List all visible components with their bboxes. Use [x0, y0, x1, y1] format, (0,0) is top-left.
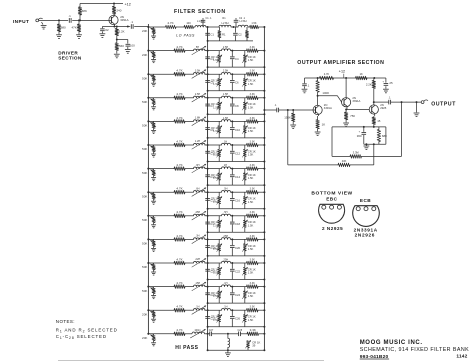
inductor band7 variable	[192, 164, 206, 173]
inductor band2 L series	[222, 49, 231, 51]
svg-text:1.5K: 1.5K	[213, 294, 219, 298]
resistor band7 4.7K	[174, 167, 185, 171]
trimmer band2 a	[217, 51, 222, 68]
svg-text:47K: 47K	[72, 26, 77, 30]
value CR1K b band9	[248, 220, 256, 224]
value 100K	[322, 91, 329, 95]
value CR1K b band4	[248, 102, 256, 106]
svg-text:2.5H: 2.5H	[223, 46, 228, 49]
value C25	[210, 317, 216, 321]
svg-text:1.5K: 1.5K	[248, 318, 254, 322]
capacitor band1 shunt C2	[233, 27, 238, 41]
svg-text:240: 240	[116, 8, 121, 12]
svg-text:2.5H: 2.5H	[195, 93, 200, 96]
value L2 8H	[222, 21, 229, 25]
transistor Q4	[369, 105, 378, 114]
wire band2 mid	[205, 50, 222, 52]
label HI PASS	[175, 345, 198, 351]
value .1 coupling	[131, 20, 134, 24]
svg-text:680: 680	[61, 26, 66, 30]
node band8 mid bus	[207, 191, 209, 193]
capacitor C3 band2	[205, 51, 210, 68]
resistor 1K rail	[356, 76, 368, 80]
inductor band3 variable	[192, 70, 206, 79]
capacitor 25uF rail	[384, 78, 389, 89]
value CR1K b band3	[248, 79, 256, 83]
wire Q3 emitter	[345, 106, 347, 110]
value 20K band14	[142, 336, 147, 340]
value C23	[210, 293, 216, 297]
wire band5 series	[148, 120, 174, 122]
potentiometer R level band11 50K	[147, 262, 156, 272]
value C18	[235, 222, 241, 226]
value 3.3K band6	[250, 140, 255, 143]
value 1.5K a band10	[213, 247, 219, 251]
svg-text:3391A: 3391A	[324, 106, 332, 110]
node filter output tap	[263, 109, 265, 111]
ground (pot band10)	[151, 248, 156, 251]
trimmer band3 b	[242, 74, 247, 91]
svg-text:SCHEMATIC, 914 FIXED FILTER BA: SCHEMATIC, 914 FIXED FILTER BANK	[360, 347, 469, 353]
capacitor C27	[210, 332, 227, 337]
label Q3 type	[352, 96, 360, 103]
svg-text:1.5K: 1.5K	[213, 247, 219, 251]
svg-text:3.3K: 3.3K	[250, 117, 255, 120]
inductor band14 shunt L	[228, 334, 230, 351]
svg-text:360: 360	[357, 134, 362, 138]
value C1 .1	[206, 17, 213, 20]
value 1.5K band1	[251, 22, 256, 25]
value 4.7K band7	[176, 163, 182, 167]
svg-text:25: 25	[389, 81, 393, 85]
value CR1K b band11	[248, 267, 256, 271]
wire band6 out	[258, 144, 264, 146]
wire band9 r-l	[185, 215, 194, 217]
wire band6 mid	[205, 144, 222, 146]
ground (input jack)	[41, 22, 47, 29]
resistor 47K	[77, 20, 80, 34]
svg-text:4.7K: 4.7K	[176, 163, 182, 167]
node band3 mid bus	[207, 73, 209, 75]
value .5H	[224, 211, 228, 214]
value 15	[377, 119, 381, 123]
node band9 input	[147, 215, 149, 217]
value 50K band4	[142, 100, 147, 104]
svg-text:1.5K: 1.5K	[248, 294, 254, 298]
svg-text:3.3K: 3.3K	[250, 140, 255, 143]
value C4	[235, 57, 239, 61]
value C13	[210, 175, 216, 179]
svg-text:1.5K: 1.5K	[213, 176, 219, 180]
wire band10 r-l	[185, 238, 194, 240]
resistor 1K emitter Q2	[316, 120, 319, 132]
capacitor .02 (emitter)	[100, 27, 105, 34]
value 3.3K band8	[250, 188, 255, 191]
wire band6 mid2	[231, 144, 247, 146]
value 4.7K band8	[176, 187, 182, 191]
svg-text:C22: C22	[235, 269, 241, 273]
ground (pot band9)	[151, 225, 156, 228]
resistor band12 4.7K	[174, 285, 185, 289]
resistor band13 3.3K	[247, 308, 259, 312]
svg-text:NOTES:: NOTES:	[56, 319, 75, 324]
wire band3 r-l	[185, 73, 194, 75]
node band10 input	[147, 238, 149, 240]
svg-text:.25H: .25H	[223, 235, 228, 238]
svg-text:50K: 50K	[142, 242, 147, 246]
svg-text:.22H: .22H	[195, 258, 200, 261]
node band4 input	[147, 97, 149, 99]
svg-text:+12: +12	[125, 3, 131, 7]
wire +12 rail (output amp)	[305, 77, 386, 79]
wire band3 out	[258, 73, 264, 75]
potentiometer R level band7 50K	[147, 168, 156, 178]
node band13 input	[147, 309, 149, 311]
value 50K band8	[142, 194, 147, 198]
svg-text:1K: 1K	[322, 122, 326, 126]
ground (pot band13)	[151, 319, 156, 322]
wire Q4c to out cap	[374, 101, 389, 103]
value 1H	[224, 164, 227, 167]
svg-text:1.5K: 1.5K	[213, 129, 219, 133]
wire band7 tank bottom	[207, 184, 266, 186]
value 3.3K band14	[250, 328, 256, 332]
node band9 output	[263, 215, 265, 217]
wire band8 out	[258, 191, 264, 193]
ground (pot band3)	[151, 83, 156, 86]
wire band6 series	[148, 144, 174, 146]
trimmer band13 b	[242, 310, 247, 327]
node band4 output	[263, 97, 265, 99]
wire band3 tank bottom	[207, 90, 266, 92]
ground (pot band7)	[151, 178, 156, 181]
svg-text:C24: C24	[235, 293, 241, 297]
resistor band1 shunt R2	[246, 27, 249, 41]
value CR1K b band2	[248, 55, 256, 59]
value R1	[222, 32, 226, 36]
value 2.2K	[119, 30, 125, 34]
capacitor C18 band9	[230, 216, 235, 233]
value 1.5K b band2	[248, 58, 254, 62]
value 1K rail	[360, 72, 363, 76]
node band5 input	[147, 120, 149, 122]
capacitor C4 band2	[230, 51, 235, 68]
value CR1K a band4	[211, 102, 219, 106]
value 100m	[194, 329, 200, 332]
value 1.5K b band13	[248, 318, 254, 322]
node Q4 emitter	[373, 126, 375, 128]
wire band12 series	[148, 286, 174, 288]
svg-text:1.2H: 1.2H	[195, 140, 200, 143]
potentiometer R level band5 50K	[147, 120, 156, 130]
svg-text:2 N2925: 2 N2925	[322, 226, 343, 231]
wire band2 series	[148, 50, 174, 52]
wire band2 tank bottom	[207, 66, 266, 68]
value 3.3K band7	[250, 164, 255, 167]
node band2 output	[263, 50, 265, 52]
value 1.5K a band7	[213, 176, 219, 180]
svg-text:2N2926: 2N2926	[355, 233, 376, 238]
node band5 output	[263, 120, 265, 122]
wire band4 tank bottom	[207, 113, 266, 115]
svg-text:C1: C1	[210, 32, 214, 36]
node band7 mid bus	[207, 168, 209, 170]
capacitor C19 band10	[205, 239, 210, 256]
value CR1K b band7	[248, 173, 256, 177]
potentiometer R level band10 50K	[147, 238, 156, 248]
svg-text:1.5K: 1.5K	[213, 58, 219, 62]
label INPUT	[13, 19, 30, 25]
inductor band8 L series	[222, 190, 231, 192]
wire band5 tank bottom	[207, 137, 266, 139]
value C1	[210, 32, 214, 36]
svg-text:50K: 50K	[142, 147, 147, 151]
wire band11 mid2	[231, 262, 247, 264]
value 4.7K band10	[176, 234, 182, 238]
label MOOG MUSIC INC.	[360, 340, 423, 346]
value 1.5K a band3	[213, 82, 219, 86]
svg-text:3.3K: 3.3K	[250, 328, 256, 332]
node band1 output	[263, 26, 265, 28]
wire band9 out	[258, 215, 264, 217]
wire band13 tank bottom	[207, 326, 266, 328]
wire Q1 emitter	[113, 24, 115, 27]
value CR1K a band10	[211, 244, 219, 248]
node band5 mid bus	[207, 120, 209, 122]
resistor band3 4.7K	[174, 72, 185, 76]
capacitor C2 stub	[234, 18, 239, 27]
value CR1K a band7	[211, 173, 219, 177]
label 2N2926	[355, 233, 376, 238]
wire band11 out	[258, 262, 264, 264]
svg-text:1.5K: 1.5K	[248, 176, 254, 180]
value CR1K b band10	[248, 244, 256, 248]
label 1142	[456, 354, 467, 360]
value 1.8H	[195, 117, 200, 120]
node band8 output	[263, 191, 265, 193]
value C21	[210, 269, 216, 273]
svg-text:3.3K: 3.3K	[250, 46, 255, 49]
trimmer band12 a	[217, 287, 222, 304]
wire Q3e to Q4 base	[346, 109, 369, 111]
svg-text:.02: .02	[105, 28, 109, 32]
node band7 input	[147, 168, 149, 170]
svg-text:.1H: .1H	[196, 305, 200, 308]
inductor band12 L series	[222, 285, 231, 287]
inductor band3 L series	[222, 72, 231, 74]
value 4.7K band6	[176, 139, 182, 143]
svg-text:C16: C16	[235, 199, 241, 203]
resistor 100K bias	[316, 78, 319, 96]
node band14 mid	[205, 333, 210, 335]
svg-text:C28: C28	[238, 329, 243, 332]
potentiometer R level band12 50K	[147, 286, 156, 296]
wire Q4 collector lead	[373, 102, 376, 105]
label Q2 type	[324, 103, 332, 110]
node band12 input	[147, 286, 149, 288]
svg-text:.6H: .6H	[196, 187, 200, 190]
capacitor C23 band12	[205, 287, 210, 304]
ground (band14)	[225, 350, 231, 356]
svg-text:68K: 68K	[82, 9, 87, 13]
trimmer band6 a	[217, 145, 222, 162]
inductor band14 variable	[190, 329, 205, 338]
value 3.3K band12	[250, 282, 255, 285]
value 20K band1	[142, 29, 147, 33]
wire emitter net	[102, 26, 134, 28]
ground (emitter network)	[364, 144, 370, 149]
svg-text:1.5K: 1.5K	[248, 58, 254, 62]
inductor band8 variable	[192, 188, 206, 197]
value 1.5K b band9	[248, 223, 254, 227]
value C6	[235, 81, 239, 85]
node band6 output	[263, 144, 265, 146]
power +12 label (driver)	[125, 3, 131, 7]
value 750	[350, 114, 355, 118]
label 993-041B20	[360, 354, 389, 360]
trimmer band8 b	[242, 192, 247, 209]
trimmer band11 b	[242, 263, 247, 280]
value .02	[105, 28, 109, 32]
inductor band5 L series	[222, 120, 231, 122]
node input divider A	[58, 19, 81, 21]
value 4.7K band14	[176, 328, 182, 332]
svg-text:4.7K: 4.7K	[176, 234, 182, 238]
svg-text:MOOG MUSIC INC.: MOOG MUSIC INC.	[360, 340, 423, 346]
svg-text:C27: C27	[209, 329, 214, 332]
value 150K	[284, 116, 291, 120]
svg-text:50K: 50K	[142, 289, 147, 293]
node emitter divider	[116, 39, 128, 41]
resistor band10 3.3K	[247, 238, 259, 242]
value 3.3K band11	[250, 258, 255, 261]
value C17	[210, 222, 216, 226]
value L1 8H	[197, 19, 204, 23]
value CR1K b band8	[248, 197, 256, 201]
potentiometer R level band8 50K	[147, 191, 156, 201]
wire band5 r-l	[185, 120, 194, 122]
wire band7 r-l	[185, 168, 194, 170]
svg-text:L2 8H: L2 8H	[222, 21, 229, 25]
wire band3 series	[148, 73, 174, 75]
resistor band11 3.3K	[247, 261, 259, 265]
value 1H	[224, 140, 227, 143]
value .1H	[196, 305, 200, 308]
transistor Q3	[342, 98, 351, 107]
svg-text:C26: C26	[235, 317, 241, 321]
wire emitter network right	[385, 127, 387, 144]
value C19	[210, 246, 216, 250]
svg-text:1K: 1K	[360, 72, 363, 76]
capacitor .1 out coupling	[277, 108, 279, 113]
label EBC	[326, 197, 337, 202]
svg-text:C14: C14	[235, 175, 241, 179]
value 1.5K a band6	[213, 153, 219, 157]
inductor band4 L series	[222, 96, 231, 98]
resistor 750 emitter Q3	[344, 110, 347, 123]
svg-text:3.3M: 3.3M	[353, 151, 359, 155]
wire band12 tank bottom	[207, 302, 266, 304]
wire Q1 collector	[113, 14, 115, 16]
svg-text:3.3K: 3.3K	[250, 211, 255, 214]
value .1 rail	[307, 84, 310, 88]
node band14 tap	[227, 333, 229, 335]
value CR1K a band11	[211, 267, 219, 271]
svg-text:.1: .1	[131, 20, 134, 24]
wire band13 mid	[205, 309, 222, 311]
wire feedback2 right	[373, 144, 375, 165]
svg-text:50K: 50K	[142, 265, 147, 269]
value 4.7K band11	[176, 257, 182, 261]
trimmer band5 b	[242, 121, 247, 137]
svg-text:R1: R1	[222, 32, 226, 36]
node band13 mid bus	[207, 309, 209, 311]
value C3	[210, 57, 214, 61]
svg-text:50K: 50K	[142, 194, 147, 198]
node band3 output	[263, 73, 265, 75]
wire band12 r-l	[185, 286, 194, 288]
capacitor C24 band12	[230, 287, 235, 304]
resistor band9 3.3K	[247, 214, 259, 218]
value 1K Q2	[322, 122, 326, 126]
inductor band11 variable	[192, 258, 206, 267]
node band10 mid bus	[207, 238, 209, 240]
value 3.3K band13	[250, 306, 255, 309]
value 100 band1	[186, 21, 191, 25]
svg-text:1.5K: 1.5K	[213, 200, 219, 204]
wire	[58, 359, 324, 361]
value 240	[116, 8, 121, 12]
value C20	[235, 246, 241, 250]
wire band11 series	[148, 262, 174, 264]
value 680 Q4	[382, 134, 387, 138]
value C24	[235, 293, 241, 297]
resistor band5 3.3K	[247, 120, 259, 124]
svg-text:15: 15	[377, 119, 381, 123]
wire band10 out	[258, 238, 264, 240]
value 50K band6	[142, 147, 147, 151]
value .1H	[224, 282, 228, 285]
svg-text:SECTION: SECTION	[58, 56, 82, 61]
value 39 band14	[252, 344, 256, 348]
power +12 label (output amp)	[339, 70, 345, 78]
value .1H	[224, 306, 228, 309]
value 100	[130, 43, 135, 47]
ground (pot band1)	[151, 36, 156, 39]
value 1.5K a band11	[213, 271, 219, 275]
value C26	[235, 317, 241, 321]
value C15	[210, 199, 216, 203]
inductor band9 variable	[192, 211, 206, 220]
node band11 mid bus	[207, 262, 209, 264]
svg-text:LO PASS: LO PASS	[176, 34, 195, 38]
wire band7 mid	[205, 168, 222, 170]
value 47K	[72, 26, 77, 30]
wire Q2 emitter lead	[317, 114, 320, 120]
wire Q4 emitter	[373, 114, 376, 118]
svg-text:50K: 50K	[142, 124, 147, 128]
svg-text:1.5K: 1.5K	[248, 105, 254, 109]
wire band13 mid2	[231, 309, 247, 311]
svg-text:4.7K: 4.7K	[176, 305, 182, 309]
svg-text:50K: 50K	[142, 218, 147, 222]
svg-text:1H: 1H	[224, 140, 227, 143]
value 4.7K band5	[176, 116, 182, 120]
wire band4 series	[148, 97, 174, 99]
value 3.3M	[353, 151, 359, 155]
value 4.7K band3	[176, 69, 182, 73]
label SCHEMATIC 914 FIXED FILTER BANK	[360, 347, 469, 353]
